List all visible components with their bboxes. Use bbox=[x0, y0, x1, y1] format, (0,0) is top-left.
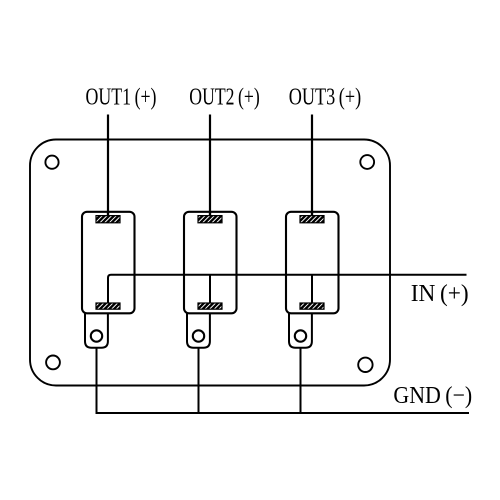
mounting hole bottom-left bbox=[46, 356, 60, 370]
panel outline bbox=[30, 140, 390, 386]
wire GND(-) bus bbox=[96, 412, 470, 414]
switch S2 lug hole bbox=[193, 330, 204, 341]
switch S1 top contact (hatched) bbox=[96, 216, 120, 223]
switch S3 top contact (hatched) bbox=[300, 216, 324, 223]
svg-text:OUT1 (+): OUT1 (+) bbox=[86, 85, 157, 111]
switch S2 ground lug bbox=[187, 313, 210, 348]
wire OUT3 to switch S3 top terminal bbox=[311, 115, 313, 217]
wire OUT2 to switch S2 top terminal bbox=[209, 115, 211, 217]
wire S2 lug to GND bus bbox=[198, 348, 200, 413]
wire S2 bottom terminal to IN bus bbox=[209, 275, 211, 304]
mounting hole top-left bbox=[45, 156, 58, 169]
switch S1 bottom contact (hatched) bbox=[96, 303, 120, 309]
switch S1 lug hole bbox=[91, 330, 102, 341]
svg-text:IN (+): IN (+) bbox=[411, 281, 469, 307]
switch S3 bottom contact (hatched) bbox=[300, 303, 324, 309]
wire stub S1 top inside body bbox=[107, 212, 109, 216]
svg-text:OUT2 (+): OUT2 (+) bbox=[189, 85, 259, 111]
switch S3 body bbox=[286, 212, 339, 313]
mounting hole bottom-right bbox=[358, 358, 372, 372]
mounting hole top-right bbox=[360, 155, 374, 169]
switch S2 bottom contact (hatched) bbox=[198, 303, 222, 309]
switch S3 lug hole bbox=[295, 330, 306, 341]
switch S2 top contact (hatched) bbox=[198, 216, 222, 223]
switch S1 body bbox=[82, 212, 135, 313]
svg-text:GND (−): GND (−) bbox=[393, 383, 472, 409]
wire stub S3 top inside body bbox=[311, 212, 313, 216]
wire S1 lug to GND bus bbox=[96, 348, 98, 413]
wire OUT1 to switch S1 top terminal bbox=[107, 115, 109, 217]
switch S3 ground lug bbox=[289, 313, 312, 348]
switch S1 ground lug bbox=[85, 313, 108, 348]
wire IN(+) bus bbox=[108, 275, 467, 304]
wire stub S2 top inside body bbox=[209, 212, 211, 216]
wire S3 lug to GND bus bbox=[300, 348, 302, 413]
wire S3 bottom terminal to IN bus bbox=[311, 275, 313, 304]
svg-text:OUT3 (+): OUT3 (+) bbox=[289, 85, 362, 111]
switch S2 body bbox=[184, 212, 237, 313]
